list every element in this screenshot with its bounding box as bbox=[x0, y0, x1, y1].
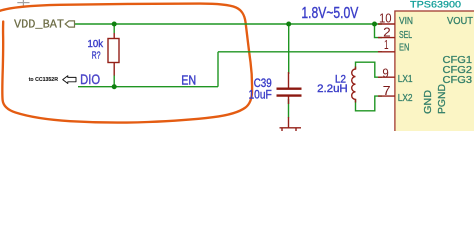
svg-text:GND: GND bbox=[422, 90, 434, 114]
junction at resistor bottom / DIO net bbox=[112, 84, 117, 89]
global label arrow bbox=[65, 21, 74, 27]
wire C39 drop from top net bbox=[288, 24, 290, 74]
svg-text:C39: C39 bbox=[254, 78, 272, 90]
inductor L2 coil arcs bbox=[352, 67, 356, 103]
ground symbol bbox=[280, 117, 302, 132]
svg-text:10uF: 10uF bbox=[249, 90, 272, 102]
svg-text:9: 9 bbox=[382, 66, 388, 80]
pin 9 line bbox=[378, 76, 395, 78]
svg-text:1: 1 bbox=[384, 38, 389, 52]
svg-text:PGND: PGND bbox=[436, 84, 448, 114]
svg-text:LX2: LX2 bbox=[398, 92, 413, 104]
junction at C39 tap bbox=[286, 22, 291, 27]
junction at VIN pin bbox=[372, 22, 377, 27]
svg-text:R?: R? bbox=[92, 50, 101, 62]
wire EN to pin 1 bbox=[218, 51, 382, 53]
svg-text:2.2uH: 2.2uH bbox=[317, 83, 348, 95]
svg-text:VOUT: VOUT bbox=[447, 15, 474, 27]
pin 10 line bbox=[378, 23, 395, 25]
svg-text:EN: EN bbox=[181, 73, 196, 88]
wire VDD_BAT top net bbox=[75, 23, 383, 25]
svg-text:SEL: SEL bbox=[399, 29, 412, 41]
svg-text:TPS63900: TPS63900 bbox=[410, 0, 461, 11]
gray cursor cross bbox=[17, 0, 29, 7]
wire DIO / EN bottom net bbox=[78, 86, 218, 88]
DIO arrow bbox=[63, 76, 76, 84]
resistor R? body bbox=[108, 33, 119, 76]
wire SEL tie from VIN junction bbox=[375, 24, 383, 38]
svg-text:EN: EN bbox=[399, 42, 409, 54]
wire L2 top to pin 9 bbox=[356, 62, 383, 77]
orange annotation loop bbox=[0, 4, 252, 123]
svg-text:LX1: LX1 bbox=[398, 73, 413, 85]
svg-text:10: 10 bbox=[379, 11, 392, 25]
wire L2 bottom to pin 7 bbox=[356, 96, 383, 111]
pin 7 line bbox=[378, 95, 395, 97]
pin 1 line bbox=[378, 51, 395, 53]
wire resistor bottom stub bbox=[113, 75, 115, 87]
svg-text:VIN: VIN bbox=[399, 15, 413, 27]
svg-text:1.8V~5.0V: 1.8V~5.0V bbox=[301, 5, 359, 22]
IC U? TPS63900 body bbox=[395, 11, 474, 141]
junction at resistor top bbox=[112, 22, 117, 27]
capacitor C39 leads bbox=[288, 72, 290, 104]
svg-text:7: 7 bbox=[383, 84, 391, 98]
pin 2 line bbox=[378, 37, 395, 39]
svg-text:to CC1352R: to CC1352R bbox=[29, 77, 59, 83]
wire resistor top stub bbox=[113, 24, 115, 33]
svg-text:10k: 10k bbox=[88, 38, 104, 50]
wire C39 to ground bbox=[288, 99, 290, 118]
svg-text:DIO: DIO bbox=[80, 72, 100, 87]
capacitor C39 plates bbox=[277, 89, 302, 96]
svg-text:VDD_BAT: VDD_BAT bbox=[14, 18, 64, 32]
wire EN riser bbox=[217, 52, 219, 87]
